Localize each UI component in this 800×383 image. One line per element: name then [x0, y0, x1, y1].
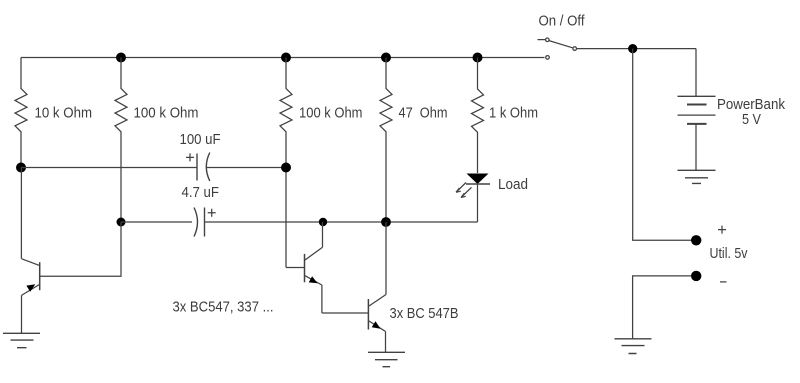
- LED light arrow 2: [461, 187, 472, 197]
- LED D1 anode triangle: [467, 174, 489, 185]
- wire battery minus down: [695, 124, 697, 170]
- switch S1 left terminal: [546, 56, 550, 60]
- svg-text:3x BC547, 337 ...: 3x BC547, 337 ...: [173, 299, 274, 316]
- battery BT1 plate short 2: [687, 123, 707, 125]
- svg-text:Util. 5v: Util. 5v: [710, 245, 748, 262]
- resistor R4 47 Ohm: [380, 58, 392, 223]
- svg-text:100 k Ohm: 100 k Ohm: [299, 105, 363, 122]
- capacitor C1 100 uF curved plate: [206, 153, 210, 182]
- wire R2 bottom to Q1 base: [40, 222, 121, 276]
- polarity + of C1: [186, 153, 194, 161]
- LED D1 wire cathode down: [477, 184, 479, 222]
- switch S1 right terminal: [573, 47, 577, 51]
- terminal util minus: [691, 271, 701, 281]
- wire util minus branch: [633, 276, 696, 339]
- ground below Q1: [3, 333, 40, 347]
- capacitor C2 4.7 uF curved plate: [194, 208, 198, 237]
- transistor Q1 collector: [21, 168, 39, 266]
- svg-text:10 k Ohm: 10 k Ohm: [35, 105, 93, 122]
- ground below Q3: [368, 352, 405, 366]
- battery BT1 plate long 2: [678, 114, 716, 116]
- wire util plus branch: [633, 49, 696, 241]
- wire switch to battery node: [577, 48, 696, 50]
- wire 100uF right segment: [207, 167, 287, 169]
- wire 4.7uF left segment: [121, 221, 192, 223]
- polarity + util: [718, 226, 726, 234]
- transistor Q2 emitter arrow (NPN): [309, 276, 318, 283]
- transistor Q2 base bar: [304, 254, 306, 282]
- transistor Q3 collector: [369, 222, 386, 306]
- switch S1 blade pivot terminal: [546, 38, 550, 42]
- capacitor C2 4.7 uF plate bar: [204, 208, 206, 237]
- node top of R4: [381, 53, 391, 63]
- svg-text:1 k Ohm: 1 k Ohm: [489, 105, 538, 122]
- polarity + of C2: [208, 209, 216, 217]
- node top of R2: [116, 53, 126, 63]
- ground below util minus: [615, 339, 652, 354]
- svg-text:5 V: 5 V: [742, 111, 761, 128]
- wire battery branch down: [695, 49, 697, 97]
- battery BT1 plate short 1: [687, 104, 707, 106]
- wire 4.7uF right segment to LED branch: [205, 221, 478, 223]
- resistor R3 100 k Ohm: [280, 58, 292, 268]
- terminal util plus: [691, 235, 701, 245]
- svg-text:4.7 uF: 4.7 uF: [182, 184, 220, 201]
- node 100uF right / R3: [281, 163, 291, 173]
- node Q3 collector / R4 bottom: [381, 217, 391, 227]
- wire R3 bottom to Q2 base: [286, 267, 304, 269]
- switch S1 blade: [549, 41, 573, 48]
- transistor Q1 emitter arrow (PNP): [26, 284, 35, 291]
- node top of R3: [281, 53, 291, 63]
- transistor Q1 emitter: [22, 285, 40, 334]
- svg-text:100 k Ohm: 100 k Ohm: [134, 105, 199, 122]
- transistor Q3 base bar: [367, 299, 369, 330]
- node R2 bottom / 4.7uF left: [117, 218, 126, 227]
- wire top rail: [21, 57, 545, 59]
- transistor Q1 base bar: [39, 262, 41, 290]
- capacitor C1 100 uF plate bar: [196, 154, 198, 181]
- LED D1 cathode bar: [466, 183, 490, 185]
- svg-text:3x BC 547B: 3x BC 547B: [390, 305, 459, 322]
- wire Q2 emitter to Q3 base: [322, 312, 368, 314]
- resistor R5 1 k Ohm: [472, 58, 484, 174]
- node top of R5: [473, 53, 483, 63]
- svg-text:100 uF: 100 uF: [180, 131, 221, 148]
- transistor Q3 emitter: [369, 321, 386, 352]
- svg-text:On / Off: On / Off: [539, 13, 586, 30]
- transistor Q2 collector: [305, 222, 323, 260]
- switch S1 blade stub: [538, 39, 546, 41]
- resistor R1 10 k Ohm: [15, 58, 27, 168]
- wire 100uF left segment: [21, 167, 197, 169]
- transistor Q3 emitter arrow (NPN): [372, 321, 381, 328]
- ground below battery: [678, 170, 716, 183]
- battery BT1 plate long 1: [678, 95, 716, 97]
- svg-text:Load: Load: [498, 176, 528, 193]
- transistor Q2 emitter: [305, 276, 322, 313]
- svg-text:47 Ohm: 47 Ohm: [399, 105, 448, 122]
- resistor R2 100 k Ohm: [115, 58, 127, 223]
- node R1 bottom / 100uF left: [16, 163, 26, 173]
- node Q2 collector: [319, 218, 327, 226]
- node battery branch: [628, 44, 637, 53]
- LED light arrow 1: [456, 183, 466, 193]
- polarity - util: [720, 281, 727, 283]
